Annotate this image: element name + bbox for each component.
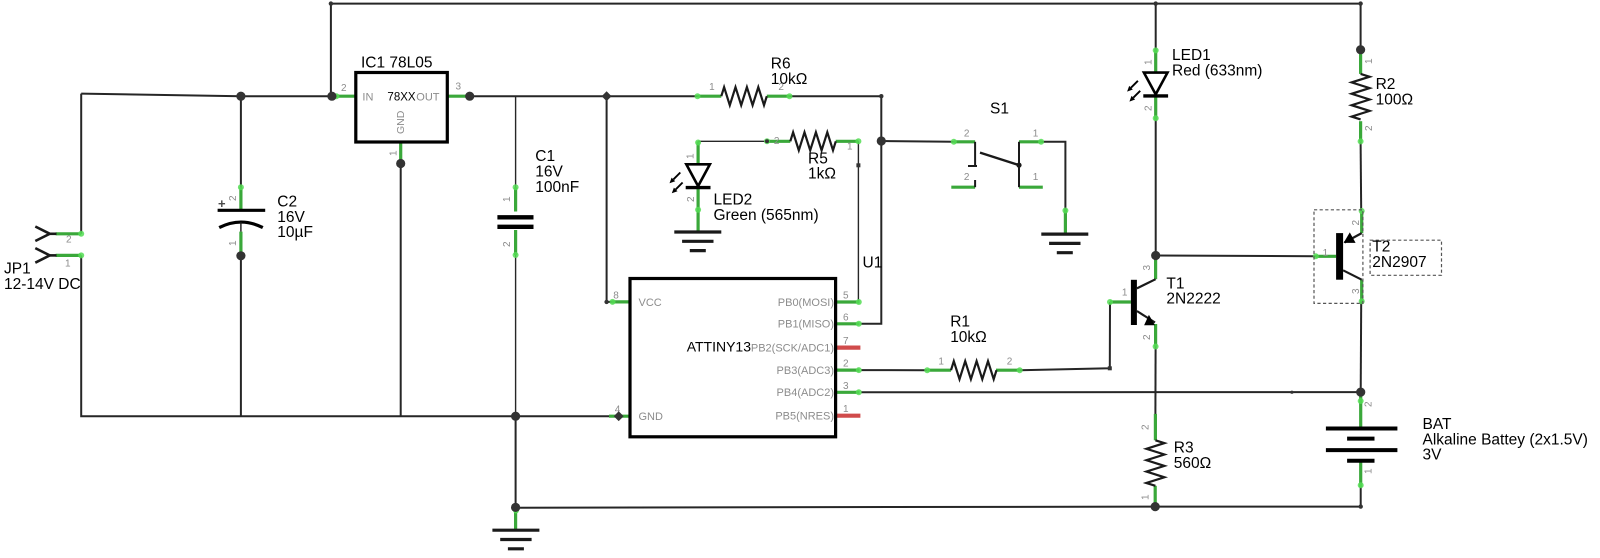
svg-text:3: 3: [1142, 265, 1153, 271]
svg-text:1: 1: [1033, 172, 1039, 183]
svg-text:78XX: 78XX: [387, 92, 415, 104]
svg-text:5: 5: [843, 291, 849, 302]
svg-text:6: 6: [843, 312, 849, 323]
svg-text:2: 2: [1007, 356, 1013, 367]
svg-text:1: 1: [228, 240, 239, 246]
svg-text:OUT: OUT: [416, 91, 440, 103]
svg-text:1: 1: [1122, 288, 1128, 299]
svg-text:1: 1: [1033, 128, 1039, 139]
svg-text:1: 1: [847, 142, 853, 153]
svg-text:1: 1: [502, 196, 513, 202]
svg-text:3: 3: [1351, 288, 1362, 294]
svg-text:2N2222: 2N2222: [1166, 291, 1220, 308]
svg-text:1: 1: [1364, 58, 1375, 64]
svg-text:2: 2: [1364, 125, 1375, 131]
svg-text:GND: GND: [639, 411, 664, 423]
svg-text:U1: U1: [863, 254, 883, 271]
svg-text:2: 2: [502, 241, 513, 247]
svg-text:10kΩ: 10kΩ: [771, 71, 808, 88]
svg-text:3: 3: [456, 82, 462, 93]
svg-text:1: 1: [1144, 59, 1155, 65]
svg-text:1: 1: [1364, 468, 1375, 474]
svg-text:1: 1: [938, 356, 944, 367]
svg-text:1: 1: [389, 150, 400, 156]
svg-text:S1: S1: [990, 101, 1009, 118]
svg-text:2: 2: [66, 235, 72, 246]
svg-text:1: 1: [686, 153, 697, 159]
svg-text:Alkaline Battey (2x1.5V): Alkaline Battey (2x1.5V): [1423, 431, 1588, 448]
svg-text:3V: 3V: [1423, 447, 1443, 464]
svg-text:JP1: JP1: [4, 261, 31, 278]
svg-text:ATTINY13: ATTINY13: [687, 339, 752, 355]
svg-text:2: 2: [778, 82, 784, 93]
svg-text:2: 2: [774, 136, 780, 147]
svg-text:8: 8: [613, 290, 619, 301]
svg-text:100nF: 100nF: [535, 179, 579, 196]
svg-text:2: 2: [964, 172, 970, 183]
svg-text:2: 2: [964, 128, 970, 139]
svg-text:GND: GND: [395, 110, 407, 134]
svg-text:2N2907: 2N2907: [1372, 254, 1426, 271]
svg-text:PB4(ADC2): PB4(ADC2): [777, 387, 834, 399]
svg-text:2: 2: [1144, 105, 1155, 111]
svg-text:1: 1: [709, 82, 715, 93]
svg-text:10µF: 10µF: [277, 224, 313, 241]
svg-text:PB0(MOSI): PB0(MOSI): [778, 297, 834, 309]
svg-text:2: 2: [1351, 220, 1362, 226]
svg-text:PB1(MISO): PB1(MISO): [778, 319, 834, 331]
svg-text:IC1 78L05: IC1 78L05: [361, 55, 433, 72]
svg-text:12-14V DC: 12-14V DC: [4, 276, 81, 293]
svg-text:1: 1: [65, 258, 71, 269]
svg-text:2: 2: [1142, 334, 1153, 340]
svg-text:1kΩ: 1kΩ: [808, 166, 836, 183]
svg-text:2: 2: [843, 359, 849, 370]
svg-text:2: 2: [1140, 424, 1151, 430]
svg-text:VCC: VCC: [639, 297, 662, 309]
svg-text:2: 2: [228, 195, 239, 201]
svg-text:3: 3: [843, 381, 849, 392]
svg-text:PB3(ADC3): PB3(ADC3): [777, 365, 834, 377]
svg-text:PB2(SCK/ADC1): PB2(SCK/ADC1): [751, 343, 834, 355]
svg-text:Red (633nm): Red (633nm): [1172, 62, 1262, 79]
svg-text:IN: IN: [362, 91, 373, 103]
svg-text:+: +: [218, 196, 226, 211]
svg-text:7: 7: [843, 336, 849, 347]
svg-text:PB5(NRES): PB5(NRES): [775, 411, 834, 423]
svg-text:100Ω: 100Ω: [1376, 91, 1413, 108]
svg-text:1: 1: [1140, 494, 1151, 500]
svg-text:10kΩ: 10kΩ: [950, 329, 987, 346]
svg-text:1: 1: [843, 404, 849, 415]
svg-text:2: 2: [686, 196, 697, 202]
svg-text:560Ω: 560Ω: [1174, 455, 1211, 472]
svg-text:2: 2: [1364, 401, 1375, 407]
svg-text:Green (565nm): Green (565nm): [714, 207, 819, 224]
svg-text:2: 2: [341, 83, 347, 94]
svg-text:1: 1: [1323, 248, 1329, 259]
